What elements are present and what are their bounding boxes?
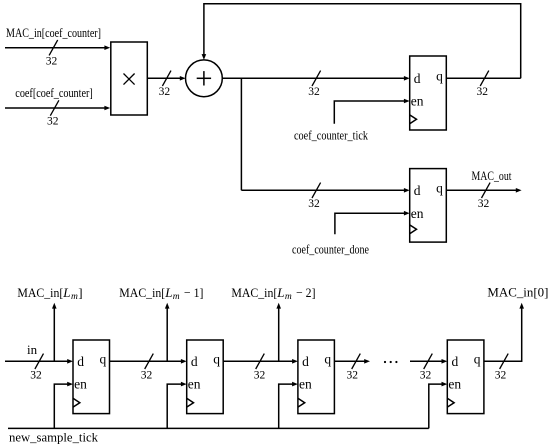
tap wire MAC_in[Lm-1] xyxy=(165,303,170,362)
svg-text:coef[coef_counter]: coef[coef_counter] xyxy=(15,85,93,100)
svg-text:q: q xyxy=(100,351,107,366)
wire new_sample_tick bus xyxy=(8,427,429,429)
bus-width slash multiplier output xyxy=(162,71,171,86)
multiplier block xyxy=(111,42,148,115)
register FF2 clock triangle xyxy=(187,398,194,407)
svg-text:32: 32 xyxy=(308,86,320,98)
svg-text:en: en xyxy=(74,377,87,392)
svg-text:MAC_in[Lm− 2]: MAC_in[Lm− 2] xyxy=(231,285,315,302)
wire ellipsis to FF4 d xyxy=(410,359,447,364)
svg-text:MAC_in[coef_counter]: MAC_in[coef_counter] xyxy=(6,25,101,40)
svg-text:q: q xyxy=(324,351,331,366)
bus-width slash FF2 q xyxy=(256,354,265,369)
bus-width slash MAC_out xyxy=(482,183,491,198)
register U2 clock triangle xyxy=(410,225,417,234)
bus-width slash output-register d input xyxy=(312,183,321,198)
bus-width slash on coef input xyxy=(50,100,59,115)
wire coef_counter_tick to U1 en xyxy=(334,99,409,124)
wire coef_counter_done to U2 en xyxy=(335,211,410,234)
svg-text:32: 32 xyxy=(478,198,490,210)
svg-text:q: q xyxy=(213,351,220,366)
svg-text:d: d xyxy=(191,354,198,369)
svg-text:new_sample_tick: new_sample_tick xyxy=(9,430,98,445)
register FF3 box xyxy=(298,340,335,414)
svg-text:d: d xyxy=(414,183,421,198)
svg-text:32: 32 xyxy=(347,369,359,381)
svg-text:32: 32 xyxy=(47,116,59,128)
register U1 clock triangle xyxy=(410,115,417,124)
svg-text:coef_counter_done: coef_counter_done xyxy=(292,242,369,257)
bus-width slash accumulator d input xyxy=(312,71,321,86)
wire bus riser to FF4 en xyxy=(429,382,448,429)
register FF1 clock triangle xyxy=(73,398,80,407)
wire bus riser to FF2 en xyxy=(167,382,187,429)
bus-width slash U1 q output xyxy=(480,71,489,86)
register U2 output register box xyxy=(410,169,447,243)
register FF4 clock triangle xyxy=(447,398,454,407)
tap wire MAC_in[Lm-2] xyxy=(276,303,281,362)
wire bus riser to FF1 en xyxy=(54,382,73,429)
wire multiplier to adder xyxy=(147,76,185,81)
wire adder output to accumulator d xyxy=(222,76,409,81)
svg-text:32: 32 xyxy=(495,369,507,381)
wire input MAC_in[coef_counter] xyxy=(5,45,110,50)
node adder output junction xyxy=(240,78,242,190)
svg-text:32: 32 xyxy=(141,369,153,381)
bus-width slash FF3 q xyxy=(352,354,361,369)
register U1 accumulator box xyxy=(410,56,447,130)
bus-width slash FF4 q xyxy=(500,354,509,369)
register FF1 box xyxy=(73,340,110,414)
adder U-add circle xyxy=(186,60,223,97)
wire input coef[coef_counter] xyxy=(5,106,110,111)
svg-text:d: d xyxy=(302,354,309,369)
wire bus riser to FF3 en xyxy=(279,382,298,429)
svg-text:q: q xyxy=(474,351,481,366)
svg-text:q: q xyxy=(436,68,443,83)
svg-text:in: in xyxy=(27,342,38,357)
svg-text:en: en xyxy=(448,377,461,392)
svg-text:32: 32 xyxy=(30,369,42,381)
svg-text:MAC_in[Lm− 1]: MAC_in[Lm− 1] xyxy=(119,285,203,302)
svg-text:32: 32 xyxy=(420,369,432,381)
svg-text:32: 32 xyxy=(46,56,58,68)
wire FF1 q to FF2 d xyxy=(110,359,187,364)
svg-text:d: d xyxy=(77,354,84,369)
svg-text:MAC_out: MAC_out xyxy=(472,168,512,183)
svg-text:en: en xyxy=(188,377,201,392)
wire FF4 q to MAC_in[0] tap xyxy=(484,303,524,362)
svg-text:32: 32 xyxy=(476,86,488,98)
bus-width slash FF1 q xyxy=(145,354,154,369)
bus-width slash in wire xyxy=(35,354,44,369)
register FF3 clock triangle xyxy=(298,398,305,407)
svg-text:d: d xyxy=(452,354,459,369)
svg-text:MAC_in[0]: MAC_in[0] xyxy=(487,285,548,300)
multiply symbol xyxy=(124,74,135,85)
wire MAC_out xyxy=(446,188,521,193)
ellipsis dots xyxy=(384,361,398,363)
wire in to shift register FF1 d xyxy=(5,359,73,364)
wire FF2 q to FF3 d xyxy=(223,359,298,364)
svg-text:q: q xyxy=(436,180,443,195)
svg-text:en: en xyxy=(411,206,424,221)
register FF2 box xyxy=(187,340,224,414)
register FF4 box xyxy=(447,340,484,414)
plus symbol xyxy=(197,71,211,85)
svg-text:d: d xyxy=(414,71,421,86)
wire U1 q to feedback node xyxy=(446,77,520,79)
bus-width slash FF4 d xyxy=(424,354,433,369)
svg-text:32: 32 xyxy=(308,198,320,210)
svg-text:en: en xyxy=(299,377,312,392)
svg-text:coef_counter_tick: coef_counter_tick xyxy=(294,127,368,142)
svg-text:32: 32 xyxy=(254,369,266,381)
bus-width slash on MAC_in input xyxy=(49,40,58,55)
tap wire MAC_in[Lm] xyxy=(52,303,57,362)
feedback wire from register q back to adder xyxy=(202,4,521,79)
svg-text:en: en xyxy=(411,94,424,109)
wire FF3 q to ellipsis xyxy=(334,359,370,364)
wire junction to output-register d xyxy=(241,188,409,193)
svg-text:32: 32 xyxy=(159,86,171,98)
